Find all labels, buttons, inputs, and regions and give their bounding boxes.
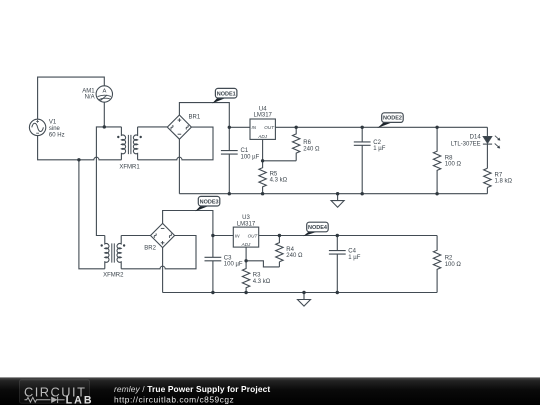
wire upper ground rail [179, 193, 487, 195]
label R2 [445, 256, 462, 268]
logo squiggle resistor-diode [25, 397, 65, 403]
logo panel [20, 380, 90, 403]
wire U4 OUT top rail [275, 126, 487, 128]
svg-text:V1: V1 [49, 120, 57, 126]
svg-text:LM317: LM317 [237, 221, 256, 227]
label V1 [49, 120, 65, 139]
resistor R5 [259, 161, 266, 194]
svg-text:OUT: OUT [248, 233, 259, 238]
svg-text:D14: D14 [470, 135, 482, 141]
resistor R2 [433, 236, 440, 293]
svg-text:ADJ: ADJ [257, 134, 267, 139]
bridge BR2 polarity marks [153, 228, 173, 244]
svg-text:NODE1: NODE1 [217, 91, 236, 97]
wire R6 bottom to ADJ node [263, 160, 297, 162]
label R5 [270, 171, 288, 183]
svg-text:LM317: LM317 [254, 113, 273, 119]
label C2 [373, 140, 385, 152]
bridge BR1 polarity marks [170, 118, 190, 134]
svg-text:R3: R3 [253, 273, 261, 279]
wire right branch LED/R7 [486, 127, 488, 136]
transformer XFMR2 [101, 236, 126, 269]
svg-text:100 µF: 100 µF [241, 155, 260, 161]
svg-text:U3: U3 [242, 215, 250, 221]
svg-text:1 µF: 1 µF [373, 146, 385, 152]
node tag texts [200, 91, 402, 231]
label U3 [237, 215, 256, 227]
svg-text:100 µF: 100 µF [224, 262, 243, 268]
resistor R3 [242, 261, 249, 293]
label C1 [241, 148, 260, 160]
wire XFMR1 primary top [96, 127, 121, 236]
wire BR1 top to NODE1 rail down to U4 IN node [179, 103, 229, 128]
svg-text:C4: C4 [348, 249, 356, 255]
svg-text:BR2: BR2 [144, 245, 156, 251]
capacitor C1 [221, 127, 238, 193]
svg-text:NODE4: NODE4 [308, 225, 328, 231]
node tag NODE1 [212, 88, 237, 103]
svg-text:ADJ: ADJ [241, 242, 251, 247]
svg-text:http://circuitlab.com/c859cgz: http://circuitlab.com/c859cgz [114, 394, 234, 404]
wire XFMR1 secondary top to BR1 left [138, 126, 168, 128]
svg-text:1.8 kΩ: 1.8 kΩ [495, 179, 513, 185]
U4 pin labels [252, 125, 276, 139]
svg-text:4.3 kΩ: 4.3 kΩ [253, 279, 271, 285]
label R8 [445, 155, 462, 167]
resistor R6 [293, 127, 300, 161]
resistor R4 [276, 236, 283, 262]
node tag NODE4 [303, 222, 328, 236]
svg-text:R8: R8 [445, 155, 453, 161]
svg-text:100 Ω: 100 Ω [445, 262, 462, 268]
svg-text:1 µF: 1 µF [348, 255, 360, 261]
wire XFMR2 primary bottom feed [79, 160, 105, 269]
svg-text:XFMR2: XFMR2 [103, 273, 124, 279]
svg-text:sine: sine [49, 126, 61, 132]
wire BR2 bottom to lower rail [162, 248, 164, 293]
voltage source V1 [29, 119, 45, 135]
label R3 [253, 273, 271, 285]
wire XFMR2 secondary top to BR2 left [121, 235, 150, 237]
bridge rectifier BR1 [167, 115, 191, 139]
capacitor C3 [205, 236, 222, 293]
svg-text:OUT: OUT [264, 125, 275, 130]
IC regulator U3 LM317 [233, 227, 258, 247]
wire BR1 right loop to XFMR1 secondary bottom (hop over BR1 bottom) [138, 127, 213, 160]
ground lower [298, 293, 311, 307]
svg-text:BR1: BR1 [189, 115, 201, 121]
label AM1 [82, 88, 95, 100]
wire R4 bottom lead [278, 262, 280, 267]
resistor R8 [433, 127, 440, 193]
label U4 [254, 106, 273, 118]
node tag NODE2 [377, 113, 403, 128]
svg-text:60 Hz: 60 Hz [49, 132, 65, 138]
wire BR2 top to NODE3 rail down to U3 IN node [163, 211, 213, 236]
bridge rectifier BR2 [151, 223, 175, 247]
svg-text:R7: R7 [495, 172, 503, 178]
wire U3 ADJ down [245, 247, 247, 261]
IC regulator U4 LM317 [250, 119, 275, 139]
label C3 [224, 255, 243, 267]
svg-text:C2: C2 [373, 140, 381, 146]
svg-text:100 Ω: 100 Ω [445, 162, 462, 168]
svg-text:R4: R4 [286, 247, 294, 253]
footer bar [0, 377, 540, 405]
wire U3 IN [213, 235, 233, 237]
wire lower ground rail [163, 292, 438, 294]
svg-text:C1: C1 [241, 148, 249, 154]
svg-text:IN: IN [252, 125, 257, 130]
svg-text:NODE2: NODE2 [383, 116, 402, 122]
svg-text:R5: R5 [270, 171, 278, 177]
wire R7 bottom to rail [486, 188, 488, 194]
label R7 [495, 172, 513, 184]
svg-text:LTL-307EE: LTL-307EE [451, 142, 481, 148]
svg-text:4.3 kΩ: 4.3 kΩ [270, 178, 288, 184]
svg-text:LAB: LAB [66, 394, 94, 405]
ammeter AM1 [96, 86, 112, 102]
U3 pin labels [235, 233, 259, 247]
label C4 [348, 249, 360, 261]
svg-text:IN: IN [235, 233, 240, 238]
wire LED cathode to R7 [486, 144, 488, 168]
LED D14 [483, 134, 502, 149]
wire U3 OUT lower rail [259, 235, 437, 237]
capacitor C2 [354, 127, 371, 193]
wire U4 ADJ down [262, 139, 264, 160]
svg-text:240 Ω: 240 Ω [303, 147, 320, 153]
wire ADJ node jog to R4 bottom [246, 261, 279, 267]
svg-text:R6: R6 [303, 140, 311, 146]
label R6 [303, 140, 320, 152]
capacitor C4 [329, 236, 346, 293]
svg-text:XFMR1: XFMR1 [119, 165, 140, 171]
svg-text:C3: C3 [224, 255, 232, 261]
svg-text:remley / True Power Supply for: remley / True Power Supply for Project [114, 384, 270, 394]
wire AM1 bottom to XFMR1 primary top [103, 102, 105, 127]
svg-text:A: A [102, 88, 106, 94]
wire V1 bottom rail to XFMR1 primary (hop over XFMR2 feed) [38, 136, 122, 160]
ground upper [331, 194, 344, 208]
resistor R7 [484, 168, 491, 187]
label D14 [451, 135, 482, 148]
wire U4 IN [229, 126, 250, 128]
svg-text:NODE3: NODE3 [200, 199, 219, 205]
node tag NODE3 [195, 196, 220, 211]
wire BR2 right loop to XFMR2 secondary bottom (hop over BR2 bottom) [121, 236, 196, 269]
svg-text:240 Ω: 240 Ω [286, 253, 303, 259]
wire BR1 bottom to ground rail [178, 139, 180, 194]
wire V1 top to AM1 [38, 77, 105, 119]
svg-text:N/A: N/A [85, 94, 95, 100]
svg-text:U4: U4 [259, 106, 267, 112]
label R4 [286, 247, 303, 259]
transformer XFMR1 [117, 127, 142, 160]
svg-text:R2: R2 [445, 256, 453, 262]
